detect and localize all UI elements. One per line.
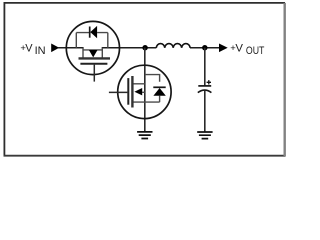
svg-text:IN: IN [35, 45, 46, 57]
transistor Q1 gate lead [93, 65, 95, 82]
ground GND1 under Q2 [137, 132, 152, 139]
svg-text:OUT: OUT [246, 45, 265, 57]
svg-text:V: V [25, 42, 33, 54]
transistor Q1 gate bar [80, 63, 107, 65]
transistor Q2 circle [118, 65, 171, 118]
svg-text:V: V [235, 42, 243, 54]
wire output cap vertical top [204, 48, 206, 86]
transistor Q1 channel bar [79, 57, 111, 59]
inductor L1 [156, 44, 190, 48]
input arrow [51, 44, 59, 53]
output arrow [219, 44, 228, 53]
transistor Q1 channel stubs and deck [83, 48, 102, 59]
transistor Q1 body-diode stubs [76, 33, 108, 48]
transistor Q2 gate lead [109, 91, 128, 93]
ground GND2 under C1 [197, 132, 212, 139]
diode D1 triangle [90, 26, 97, 38]
capacitor C1 top plate [198, 85, 211, 87]
wire output cap vertical bottom [204, 91, 206, 133]
node SW junction dot [142, 45, 147, 50]
transistor Q2 channel bar [131, 76, 133, 108]
transistor Q1 circle [66, 21, 119, 74]
transistor Q1 substrate arrow [89, 50, 98, 57]
diode D2 cathode bar [153, 86, 165, 88]
transistor Q2 channel stubs and deck [133, 84, 160, 102]
wire main horizontal rail [58, 47, 220, 49]
transistor Q2 body-diode loop [145, 75, 160, 103]
wire switch node vertical [144, 48, 146, 132]
node OUT junction dot [202, 45, 207, 50]
diode D2 triangle [153, 88, 165, 96]
transistor Q2 substrate arrow [134, 88, 142, 95]
transistor Q2 gate bar [127, 78, 129, 105]
capacitor C1 plus sign [207, 80, 211, 84]
capacitor C1 curved plate [198, 90, 212, 93]
diode D1 cathode bar [89, 27, 91, 38]
border frame [4, 3, 285, 156]
